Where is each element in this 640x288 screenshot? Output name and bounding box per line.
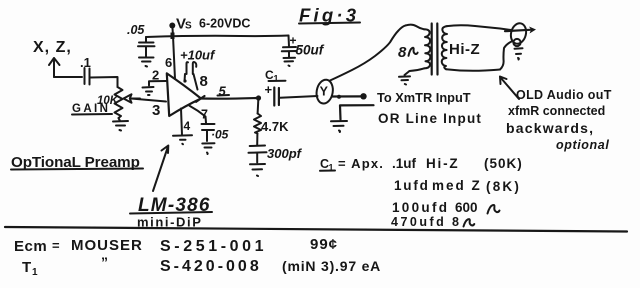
svg-text:med Z: med Z: [432, 178, 482, 193]
capacitor .05 pin7: [202, 124, 229, 142]
wire pot to ground: [119, 118, 121, 121]
ground (pin 2): [143, 87, 154, 95]
svg-text:T: T: [22, 259, 31, 276]
annotation arrow LM-386: [153, 146, 168, 192]
svg-text:3: 3: [152, 102, 160, 119]
svg-text:1: 1: [274, 74, 279, 84]
op-amp U1 LM-386: [167, 73, 205, 116]
ground (terminal): [331, 121, 347, 132]
ground (.05 supply): [139, 58, 154, 67]
svg-text:300pf: 300pf: [267, 146, 303, 161]
svg-text:optional: optional: [556, 138, 609, 152]
ground (pin 4): [173, 135, 192, 144]
label Vs 6-20VDC: [176, 16, 250, 33]
connector output jack: [509, 22, 528, 46]
junction node output: [256, 95, 261, 100]
node Vs: [169, 23, 175, 40]
wire rail to 50uf: [288, 36, 291, 47]
capacitor C1: [265, 68, 286, 106]
svg-text:2: 2: [152, 68, 159, 83]
svg-text:Ecm: Ecm: [14, 238, 47, 255]
svg-text:S-251-001: S-251-001: [160, 238, 267, 255]
svg-text:backwards,: backwards,: [506, 120, 594, 136]
pin 2 lead: [149, 81, 166, 86]
svg-text:4.7K: 4.7K: [261, 119, 289, 134]
ground (pot): [113, 121, 128, 131]
wire pin3 from wiper: [131, 99, 166, 102]
ground (50uf): [284, 58, 296, 66]
capacitor .1 input coupling: [80, 55, 91, 85]
output arrow: [529, 27, 536, 34]
label LM-386: [130, 195, 212, 216]
pin 4 lead: [181, 109, 182, 136]
supply wire Vs rail: [146, 36, 289, 38]
ground (primary): [399, 76, 410, 84]
transformer T1 primary winding 8ohm: [398, 25, 430, 71]
BOM row Ecm: [14, 236, 338, 255]
label C1 values: [320, 156, 523, 229]
wire Y to terminal dots: [332, 93, 367, 99]
svg-text:+10uf: +10uf: [180, 48, 216, 63]
output wire through jack: [505, 30, 530, 31]
svg-text:To XmTR InpuT: To XmTR InpuT: [377, 90, 471, 105]
svg-text:Y: Y: [320, 85, 329, 99]
svg-text:(8K): (8K): [486, 179, 521, 194]
svg-text:xfmR connected: xfmR connected: [508, 104, 605, 118]
svg-text:+: +: [265, 82, 273, 97]
transformer T1 secondary winding Hi-Z: [442, 25, 511, 71]
wire 4.7K to 300pf: [256, 134, 258, 146]
svg-text:470ufd: 470ufd: [391, 215, 446, 229]
pin 5 output wire: [201, 97, 257, 100]
svg-text:”: ”: [101, 254, 108, 270]
capacitor 10uf gain pins 1-8: [180, 48, 216, 90]
svg-text:6-20VDC: 6-20VDC: [199, 17, 250, 31]
svg-text:1ufd: 1ufd: [394, 178, 430, 193]
potentiometer R 10K GAIN: [97, 87, 123, 118]
svg-text:(miN 3).97 eA: (miN 3).97 eA: [282, 258, 381, 274]
svg-text:S: S: [185, 21, 192, 32]
svg-text:OLD Audio ouT: OLD Audio ouT: [516, 88, 612, 102]
svg-text:7: 7: [201, 108, 208, 122]
svg-text:600: 600: [455, 200, 478, 215]
svg-text:8: 8: [452, 215, 459, 229]
svg-text:= Apx.: = Apx.: [338, 156, 384, 171]
annotation arrow OLD audio: [500, 77, 519, 100]
ground (300pf): [250, 164, 265, 176]
svg-text:50uf: 50uf: [296, 43, 325, 58]
wire input to C.1: [54, 76, 82, 78]
svg-text:S-420-008: S-420-008: [160, 258, 262, 275]
svg-text:99¢: 99¢: [310, 236, 338, 253]
resistor 4.7K: [254, 114, 289, 135]
svg-text:8: 8: [200, 73, 208, 90]
capacitor 300pf: [249, 146, 303, 163]
wire Vs to pin 6: [173, 28, 176, 79]
pot wiper arrow: [124, 94, 141, 102]
svg-text:=: =: [52, 238, 60, 253]
wire primary to ground: [405, 71, 410, 75]
ground (pin7 cap): [202, 143, 214, 154]
svg-text:8: 8: [398, 44, 407, 61]
pin 7 lead: [190, 106, 207, 123]
wire junction to 4.7K: [257, 100, 260, 114]
svg-text:6: 6: [165, 55, 172, 70]
capacitor .05 supply plates: [138, 43, 155, 57]
separator line: [5, 227, 627, 232]
svg-text:·05: ·05: [211, 128, 229, 142]
svg-text:X, Z,: X, Z,: [33, 39, 72, 56]
svg-text:1: 1: [32, 267, 38, 278]
wire supply to .05: [145, 37, 147, 42]
wire lower terminal L to ground: [340, 105, 374, 119]
transformer core: [432, 24, 438, 75]
wire C1 to jack Y: [280, 96, 318, 98]
svg-text:OR Line Input: OR Line Input: [378, 111, 482, 126]
svg-text:4: 4: [184, 119, 191, 133]
wire Y jack to transformer primary: [330, 25, 406, 80]
capacitor 50uf: [282, 34, 325, 58]
svg-text:100ufd: 100ufd: [392, 200, 449, 215]
connector Y jack: [315, 78, 335, 104]
label GAIN: [72, 103, 112, 115]
title Fig. 3: [299, 5, 360, 26]
wire C.1 to pot: [90, 77, 118, 87]
svg-text:Hi-Z: Hi-Z: [426, 156, 459, 171]
svg-text:MOUSER: MOUSER: [71, 237, 143, 254]
svg-text:(50K): (50K): [484, 156, 523, 171]
svg-text:.05: .05: [127, 23, 145, 37]
BOM row T1: [22, 254, 381, 278]
label Optional Preamp: [11, 154, 143, 171]
ground (jack): [515, 48, 523, 59]
input arrow: [49, 58, 60, 77]
wire jack to secondary bottom: [500, 42, 512, 70]
svg-text:.1uf: .1uf: [392, 156, 417, 171]
svg-text:Hi-Z: Hi-Z: [449, 41, 480, 58]
